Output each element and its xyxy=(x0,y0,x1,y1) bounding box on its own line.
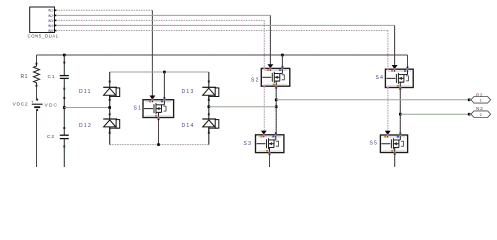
gate arrow S2 xyxy=(268,64,274,68)
svg-text:CON5_DUAL: CON5_DUAL xyxy=(28,34,59,39)
node N2 end junction xyxy=(468,113,471,116)
svg-text:S3: S3 xyxy=(244,141,253,147)
wire DC+ top rail xyxy=(37,54,408,56)
capacitor C2 xyxy=(60,134,69,136)
wire S1 source to bottom rail xyxy=(158,118,160,145)
node DC+ C1 junction xyxy=(63,54,66,57)
wire S1 drain xyxy=(163,72,165,100)
wire D14 anode to bottom rail xyxy=(208,127,210,145)
svg-text:C2: C2 xyxy=(47,134,55,140)
node bridge left mid xyxy=(108,106,111,109)
svg-text:+: + xyxy=(31,99,34,104)
svg-text:D11: D11 xyxy=(79,89,92,95)
wire bridge right mid to leg1 xyxy=(209,106,276,108)
svg-text:S5: S5 xyxy=(370,140,379,146)
wire S5 source off-page xyxy=(394,153,396,168)
mosfet S3 xyxy=(256,135,284,153)
wire C2 bottom off-page xyxy=(63,139,65,167)
svg-text:D13: D13 xyxy=(182,89,195,95)
gate arrow S3 xyxy=(261,131,267,135)
wire net G5 pin5 to S5 gate dotted xyxy=(56,30,388,32)
diode D12 xyxy=(103,118,117,120)
wire rail corner to S4 drain xyxy=(407,55,409,69)
svg-text:VDC2: VDC2 xyxy=(13,102,29,108)
mosfet S5 xyxy=(380,135,407,153)
svg-text:IN5: IN5 xyxy=(48,29,53,33)
svg-text:D12: D12 xyxy=(79,123,92,129)
svg-text:IN3: IN3 xyxy=(48,19,53,23)
svg-text:C1: C1 xyxy=(48,74,56,80)
wire bridge bottom rail xyxy=(110,144,209,146)
wire D13 cathode lead xyxy=(208,72,210,87)
wire rail to S2 drain xyxy=(281,55,283,68)
svg-text:1: 1 xyxy=(480,98,482,102)
wire net G1 pin1 to S1 gate xyxy=(56,9,152,11)
wire net G5 below S4 box xyxy=(387,88,389,131)
wire net G3 pin3 to S3 gate dotted xyxy=(56,19,264,21)
terminal P2 xyxy=(471,97,491,104)
node S1 source junction xyxy=(157,143,160,146)
wire net G2 pin2 to S2 gate xyxy=(56,14,270,16)
svg-text:S1: S1 xyxy=(134,106,143,112)
gate arrow S4 xyxy=(392,65,398,69)
wire D11 anode to mid xyxy=(109,96,111,119)
node bridge right mid xyxy=(208,105,211,108)
wire net G3 below S2 box xyxy=(263,86,265,130)
node DC mid junction xyxy=(63,106,66,109)
terminal N2 xyxy=(471,111,491,118)
wire S4 source to S5 drain xyxy=(399,88,401,136)
wire C1 to C2 xyxy=(63,78,65,135)
pin marks bridge branches xyxy=(109,81,111,83)
wire D13 anode to mid xyxy=(208,96,210,119)
capacitor C1 xyxy=(60,75,69,77)
wire R to VDC2 xyxy=(36,86,38,100)
diode D13 xyxy=(202,86,216,88)
node S1 drain junction xyxy=(163,71,166,74)
diode D14 xyxy=(202,118,216,120)
node leg2 N2 junction xyxy=(399,113,402,116)
wire N2 line xyxy=(400,113,469,115)
wire VDC2 down off-page xyxy=(36,110,38,167)
wire S3 source off-page xyxy=(269,153,271,167)
svg-text:N2: N2 xyxy=(476,106,484,112)
wire P2 line xyxy=(276,99,469,101)
svg-text:S2: S2 xyxy=(251,78,260,84)
wire branch1 top xyxy=(36,55,38,64)
dc source VDC2 xyxy=(32,103,43,105)
wire D11 cathode lead xyxy=(109,72,111,87)
gate arrow S5 xyxy=(385,131,391,135)
diode D11 xyxy=(103,86,117,88)
wire net G4 pin4 to S4 gate xyxy=(56,24,395,26)
wire C1 top lead xyxy=(63,55,65,75)
wire bridge top rail xyxy=(110,71,209,73)
svg-text:D14: D14 xyxy=(182,123,195,129)
svg-text:P2: P2 xyxy=(476,92,483,98)
node leg1 bridge junction xyxy=(275,105,278,108)
wire DC mid to bridge left xyxy=(64,107,109,109)
svg-text:IN4: IN4 xyxy=(48,24,53,28)
gate arrow S1 xyxy=(150,96,156,100)
node P2 end junction xyxy=(468,99,471,102)
svg-text:2: 2 xyxy=(480,113,482,117)
svg-text:VDC: VDC xyxy=(45,102,59,108)
svg-text:IN2: IN2 xyxy=(48,14,53,18)
node rail S2 drain junction xyxy=(281,54,284,57)
svg-text:R1: R1 xyxy=(21,74,28,80)
mosfet S4 xyxy=(385,69,413,87)
connector J1 CON5_DUAL xyxy=(30,7,55,33)
wire S2 source to S3 drain xyxy=(275,86,277,135)
node leg1 P2 junction xyxy=(275,99,278,102)
resistor R xyxy=(34,64,40,86)
mosfet S2 xyxy=(261,68,290,86)
svg-text:S4: S4 xyxy=(376,75,385,81)
svg-text:IN1: IN1 xyxy=(48,9,53,13)
wire D12 anode to bottom rail xyxy=(109,127,111,145)
mosfet S1 xyxy=(143,100,174,118)
